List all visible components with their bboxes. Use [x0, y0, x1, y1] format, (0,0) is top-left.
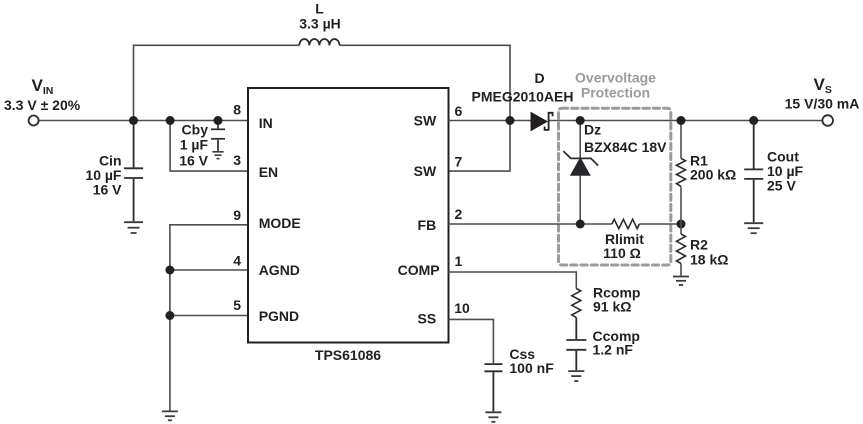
node junction PGND: [165, 311, 174, 320]
wire SW6 to diode: [449, 120, 532, 122]
label L value: [299, 1, 341, 32]
node junction EN: [166, 116, 175, 125]
label pin names left: [259, 115, 301, 324]
label VS: [785, 75, 860, 112]
svg-text:PMEG2010AEH: PMEG2010AEH: [472, 88, 574, 104]
svg-text:Protection: Protection: [581, 84, 650, 100]
wire top inductor net: [134, 45, 511, 171]
svg-text:IN: IN: [259, 115, 273, 131]
svg-text:18 kΩ: 18 kΩ: [690, 252, 728, 268]
node junction Cout: [749, 116, 758, 125]
svg-text:2: 2: [455, 206, 463, 222]
svg-text:TPS61086: TPS61086: [315, 347, 381, 363]
svg-text:16 V: 16 V: [179, 152, 208, 168]
label pin numbers right: [454, 103, 470, 316]
svg-text:VIN: VIN: [32, 76, 54, 97]
inductor L: [299, 39, 339, 45]
capacitor Ccomp: [566, 318, 586, 371]
svg-text:5: 5: [233, 297, 241, 313]
svg-text:SS: SS: [418, 311, 437, 327]
label Cby value: [179, 122, 208, 169]
svg-text:200 kΩ: 200 kΩ: [690, 167, 736, 183]
wire EN branch: [170, 121, 248, 172]
svg-text:16 V: 16 V: [93, 182, 122, 198]
svg-text:PGND: PGND: [259, 308, 299, 324]
node junction FB-R2: [677, 220, 686, 229]
svg-text:3.3 µH: 3.3 µH: [299, 15, 341, 31]
svg-text:COMP: COMP: [398, 262, 440, 278]
svg-text:Cby: Cby: [182, 122, 209, 138]
svg-text:8: 8: [233, 101, 241, 117]
label Overvoltage Protection: [575, 70, 656, 101]
label Dz value: [584, 122, 667, 155]
svg-text:1.2 nF: 1.2 nF: [593, 342, 634, 358]
ground Cout: [744, 223, 763, 233]
capacitor Cout: [744, 121, 763, 223]
svg-text:10 µF: 10 µF: [85, 167, 122, 183]
capacitor Cin: [124, 121, 143, 222]
node junction AGND: [165, 266, 174, 275]
resistor Rcomp: [572, 289, 581, 318]
svg-text:MODE: MODE: [259, 215, 301, 231]
wire R1 R2 column: [680, 121, 682, 276]
svg-text:110 Ω: 110 Ω: [603, 245, 641, 261]
node junction input-Cin: [129, 116, 138, 125]
op-amp U1 TPS61086: [248, 88, 449, 343]
svg-text:91 kΩ: 91 kΩ: [593, 299, 631, 315]
svg-text:1: 1: [455, 253, 463, 269]
svg-text:EN: EN: [259, 164, 278, 180]
label Css value: [509, 346, 554, 376]
wire SS branch: [449, 319, 494, 363]
svg-text:7: 7: [455, 154, 463, 170]
svg-text:3.3 V ± 20%: 3.3 V ± 20%: [4, 97, 81, 113]
svg-text:9: 9: [233, 207, 241, 223]
svg-text:L: L: [315, 1, 324, 17]
label Rcomp value: [593, 285, 640, 315]
terminal VS: [822, 115, 833, 126]
label Ccomp value: [593, 328, 640, 357]
dashed box overvoltage protection: [559, 108, 671, 265]
node junction R1 top: [677, 116, 686, 125]
label Rlimit value: [603, 231, 644, 261]
diode Dz zener: [563, 151, 598, 175]
svg-text:3: 3: [233, 152, 241, 168]
ground Cin: [124, 222, 143, 233]
terminal VIN: [29, 116, 39, 126]
resistor R1: [677, 158, 686, 186]
svg-text:Overvoltage: Overvoltage: [575, 70, 656, 86]
svg-text:Cin: Cin: [99, 152, 122, 168]
wire diode to output: [550, 120, 823, 122]
svg-text:15 V/30 mA: 15 V/30 mA: [785, 96, 860, 112]
label Cin value: [85, 152, 122, 197]
label Cout value: [767, 149, 804, 194]
diode D PMEG2010AEH: [531, 113, 553, 131]
wire input net: [39, 120, 248, 122]
label pin numbers left: [233, 101, 241, 313]
svg-text:VS: VS: [814, 75, 832, 96]
label VIN: [4, 76, 81, 113]
resistor Rlimit: [612, 219, 639, 228]
node junction SW-inductor: [506, 116, 515, 125]
node junction Cby: [214, 116, 223, 125]
label pin names right: [398, 113, 440, 327]
wire COMP branch: [449, 272, 577, 289]
resistor R2: [677, 234, 686, 264]
svg-text:FB: FB: [418, 217, 437, 233]
capacitor Cby: [211, 121, 225, 151]
ground R2: [673, 277, 689, 286]
svg-text:4: 4: [233, 252, 241, 268]
svg-text:1 µF: 1 µF: [180, 137, 209, 153]
svg-text:100 nF: 100 nF: [509, 360, 554, 376]
ground Cby: [212, 152, 223, 159]
svg-text:SW: SW: [414, 163, 437, 179]
svg-text:BZX84C 18V: BZX84C 18V: [584, 139, 667, 155]
capacitor Css: [484, 364, 502, 411]
svg-text:10: 10: [454, 300, 470, 316]
wire zener column: [579, 121, 581, 225]
wire FB net: [449, 223, 682, 225]
svg-text:Dz: Dz: [584, 122, 601, 138]
wire MODE AGND PGND gnd branch: [170, 225, 248, 411]
svg-text:25 V: 25 V: [767, 178, 796, 194]
svg-text:AGND: AGND: [259, 262, 300, 278]
svg-text:SW: SW: [414, 113, 437, 129]
node junction FB-Dz: [576, 220, 585, 229]
ground Css: [485, 412, 501, 422]
label R1 value: [690, 153, 736, 183]
label D: [472, 70, 574, 104]
ground left bottom: [162, 411, 178, 420]
svg-text:6: 6: [455, 103, 463, 119]
node junction Dz top: [576, 116, 585, 125]
svg-text:R2: R2: [690, 237, 708, 253]
label R2 value: [690, 237, 728, 268]
svg-text:D: D: [534, 70, 544, 86]
ground Ccomp: [568, 371, 584, 381]
